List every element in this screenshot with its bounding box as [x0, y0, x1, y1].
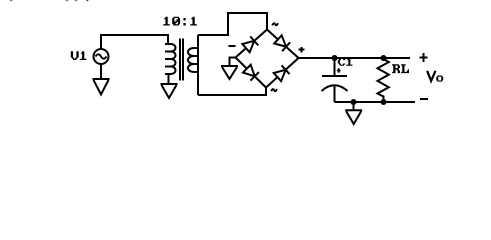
AC mark bottom [271, 89, 277, 91]
wire bridge plus to output (top rail) [299, 57, 411, 59]
wire V1 bottom lead [100, 64, 102, 80]
wire bridge left vertex to ground [230, 58, 236, 67]
bridge edge bottom-left [236, 58, 267, 88]
resistor RL zigzag [378, 58, 389, 102]
ground under bottom rail [345, 110, 362, 124]
transformer T1 primary winding [165, 44, 176, 74]
diode D1 top-left arm [242, 36, 258, 52]
plus polarity mark C1 [337, 68, 341, 73]
junction dot ground [351, 99, 357, 105]
wire secondary top to bridge top vertex [198, 13, 267, 35]
diode D3 bottom-left arm [243, 65, 259, 81]
diode D4 bottom-right arm [274, 65, 290, 81]
transformer core [180, 39, 183, 81]
minus mark bridge left [229, 45, 236, 47]
plus mark output [420, 53, 428, 62]
junction dot capacitor top [332, 55, 338, 61]
capacitor C1 top lead [334, 58, 336, 75]
bridge edge top-right [267, 30, 299, 59]
transformer T1 secondary winding [188, 48, 198, 72]
bottom rail [335, 101, 416, 103]
ground lead [353, 102, 355, 110]
wire secondary bottom to bridge bottom vertex [198, 88, 266, 96]
minus mark output [420, 98, 428, 100]
bridge edge bottom-right [266, 58, 299, 88]
wire V1 top lead to transformer primary [101, 35, 168, 50]
label Vo [427, 71, 435, 81]
capacitor C1 bottom plate (curved) [322, 85, 348, 91]
junction dot resistor top [381, 55, 387, 61]
ground under V1 [93, 79, 110, 95]
plus mark bridge right [299, 47, 305, 53]
AC source V1 [94, 49, 109, 64]
diode D2 top-right arm [274, 35, 290, 51]
cropped text remnants at top edge [10, 0, 90, 1]
capacitor C1 bottom lead [334, 85, 336, 102]
transformer primary bottom lead [168, 74, 170, 84]
label RL [392, 64, 409, 73]
AC mark top [272, 23, 278, 25]
ground under bridge minus [221, 66, 238, 79]
bridge edge top-left [236, 30, 268, 58]
junction dot resistor bottom [381, 99, 387, 105]
capacitor C1 top plate [322, 75, 347, 77]
label V1 [71, 51, 87, 60]
label 10:1 [163, 17, 197, 26]
transformer secondary lead line [197, 35, 199, 95]
label C1 [338, 58, 353, 66]
ground under transformer [161, 84, 178, 98]
